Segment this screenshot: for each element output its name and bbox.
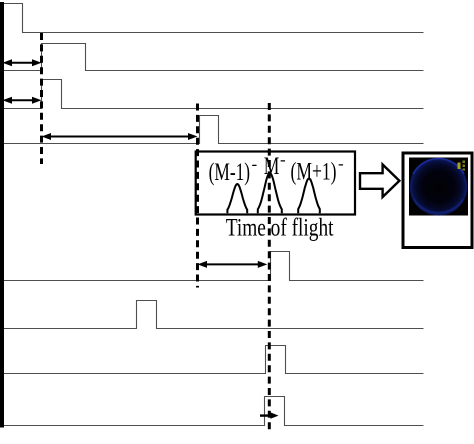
photo scale glyphs (458, 163, 461, 170)
trace 3 (short pulse at first dashed marker) (4, 80, 424, 109)
mass peak (M+1) (298, 179, 320, 214)
mass peak M (center) (258, 173, 282, 213)
svg-text:-: - (338, 154, 344, 173)
trace 1 (top waveform: high then low) (4, 4, 424, 33)
trace 4 (pulse at second dashed marker) (4, 116, 424, 144)
trace 2 (pulse at first dashed marker) (4, 44, 424, 71)
detector photo (black with blue ion ring) (409, 158, 468, 216)
svg-text:-: - (280, 150, 286, 169)
trace 8 (bottom pulse) (4, 397, 424, 426)
delay arrow C (marker 1 to marker 2) (42, 133, 198, 140)
trace 7 (pulse at third dashed marker) (4, 346, 424, 374)
svg-text:(M-1): (M-1) (209, 159, 251, 186)
delay arrow D (marker 2 to marker 3) (198, 261, 268, 268)
svg-text:Time of flight: Time of flight (226, 214, 334, 241)
spectrum box (196, 152, 355, 215)
block arrow to detector image (360, 165, 399, 198)
delay arrow B (bar to marker 1) (3, 97, 42, 104)
dashed marker line 1 (40, 33, 43, 164)
small delay arrow E (bottom, crossing marker 3) (260, 412, 279, 418)
trace 5 (pulse at third dashed marker) (4, 252, 424, 281)
delay arrow A (bar to marker 1) (3, 59, 42, 66)
svg-text:(M+1): (M+1) (291, 158, 337, 185)
trace 6 (early short pulse) (4, 301, 424, 329)
mass peak (M-1) (227, 184, 247, 213)
extraction trigger bar (thick vertical line at left) (0, 2, 4, 428)
detector photo frame (403, 153, 472, 248)
svg-text:-: - (252, 155, 258, 174)
dashed marker line 3 (268, 103, 271, 432)
svg-text:M: M (264, 153, 280, 180)
dashed marker line 2 (196, 104, 199, 288)
